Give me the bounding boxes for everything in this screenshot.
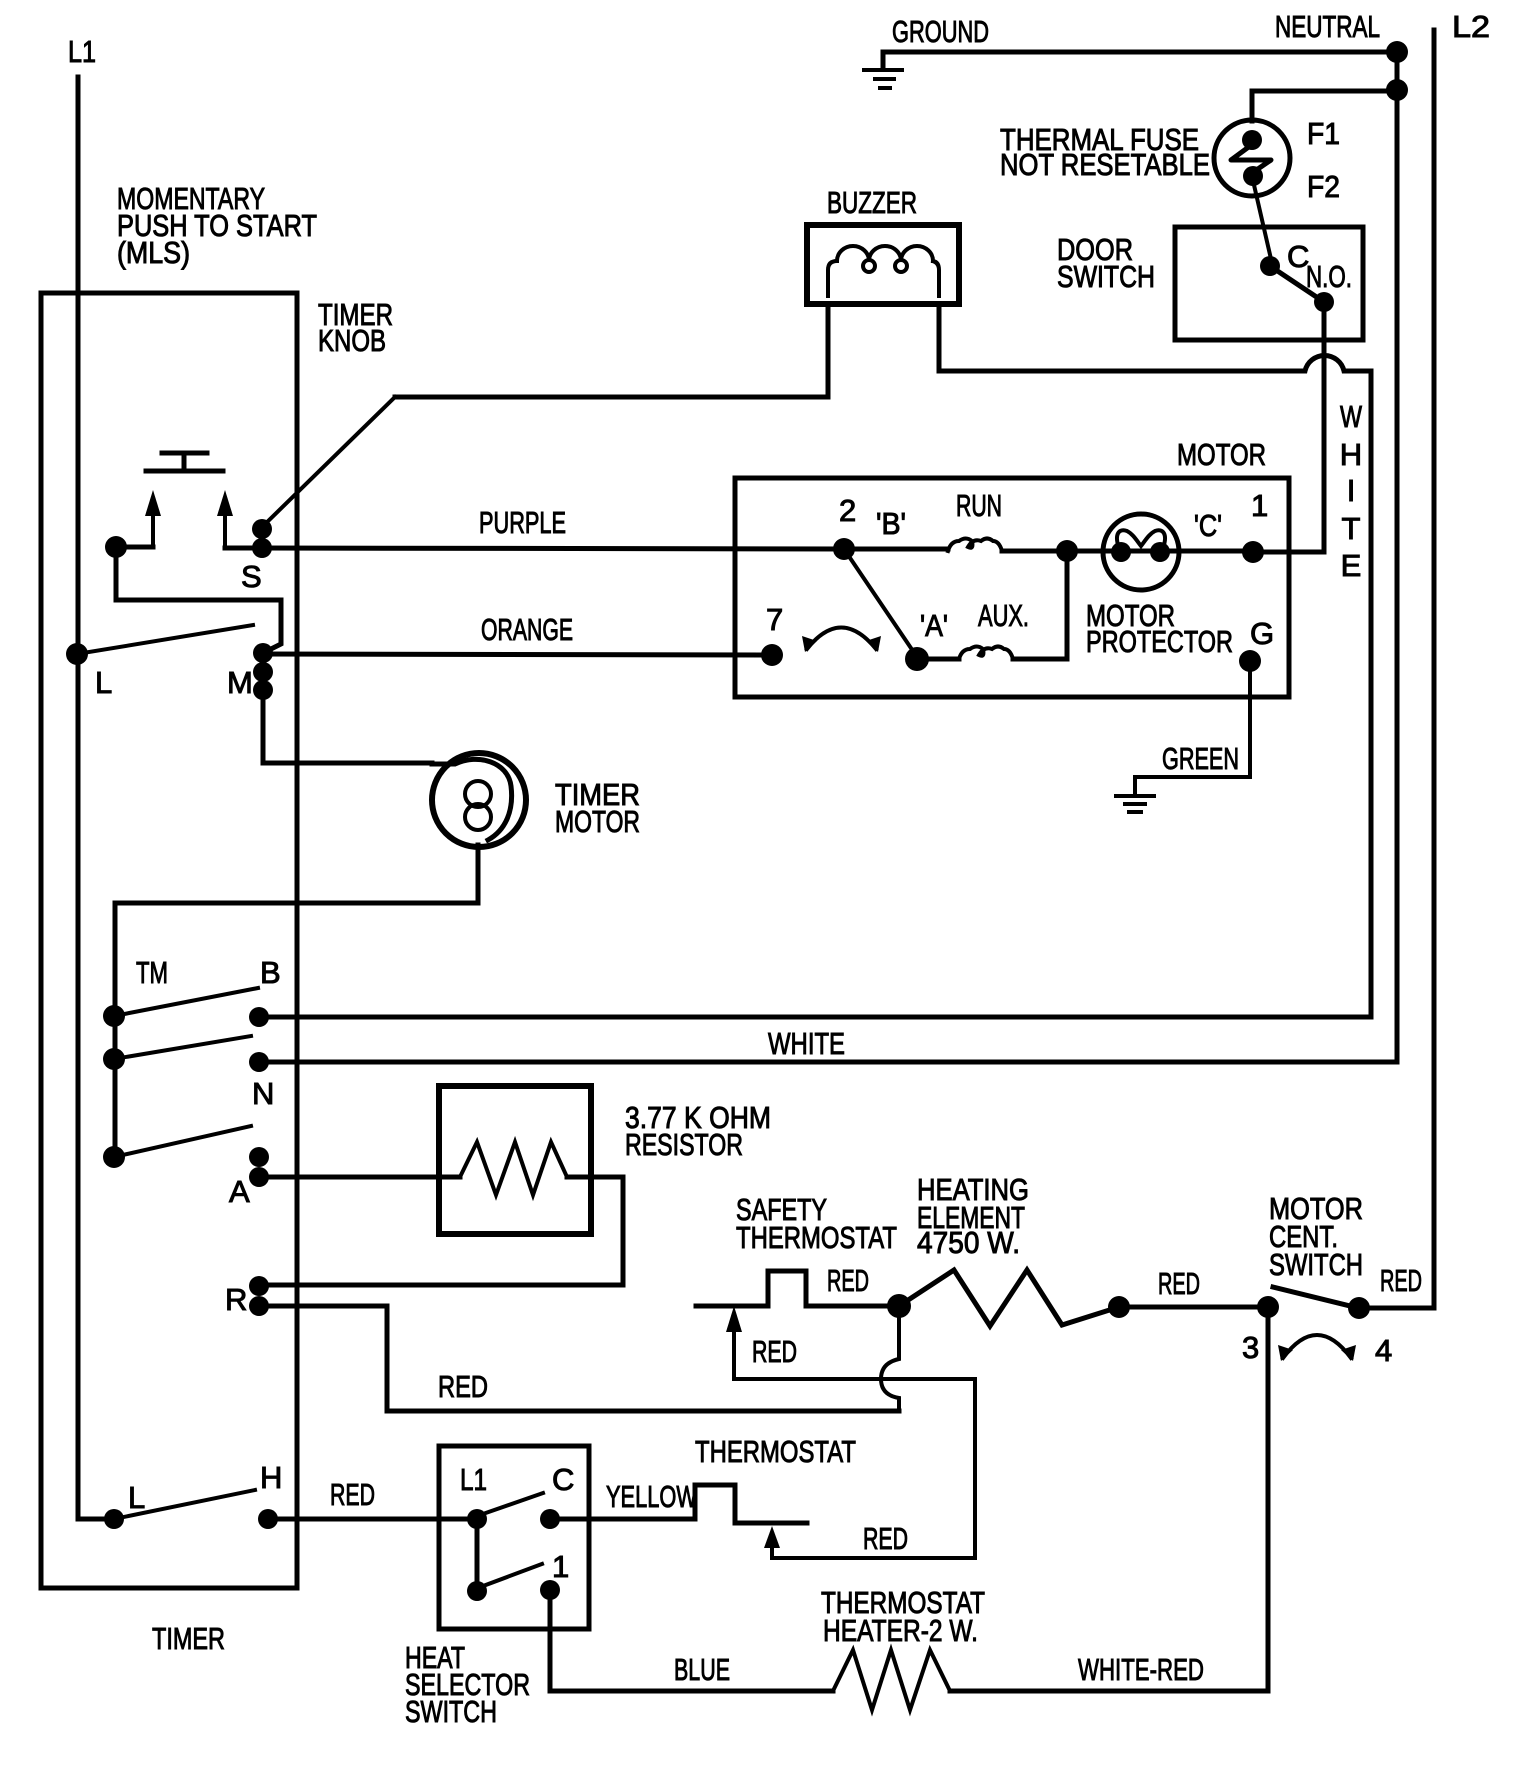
wire L2 line xyxy=(1432,30,1437,1308)
fuse F1-F2 circle xyxy=(1214,120,1290,196)
motor terminal G dot xyxy=(1239,650,1261,672)
svg-text:N.O.: N.O. xyxy=(1306,259,1352,294)
svg-text:WHITE-RED: WHITE-RED xyxy=(1078,1652,1204,1687)
svg-text:KNOB: KNOB xyxy=(318,323,386,358)
svg-text:WHITE: WHITE xyxy=(768,1026,845,1061)
svg-text:AUX.: AUX. xyxy=(978,598,1029,633)
svg-text:GREEN: GREEN xyxy=(1162,741,1239,776)
wire ground lead xyxy=(883,52,1397,69)
node heating element right junction xyxy=(1108,1296,1130,1318)
svg-text:SWITCH: SWITCH xyxy=(1269,1247,1363,1282)
svg-text:L2: L2 xyxy=(1452,9,1490,44)
svg-text:H: H xyxy=(260,1460,282,1495)
svg-text:ORANGE: ORANGE xyxy=(481,612,573,647)
motor RUN winding coil xyxy=(948,539,1002,552)
motor blade 2-A xyxy=(844,549,917,657)
timer box xyxy=(41,293,297,1588)
svg-text:RESISTOR: RESISTOR xyxy=(625,1127,743,1162)
svg-text:4750 W.: 4750 W. xyxy=(917,1225,1020,1260)
motor AUX winding coil xyxy=(959,647,1013,660)
timer blade L-H xyxy=(114,1490,255,1519)
svg-text:R: R xyxy=(225,1282,247,1317)
svg-text:N: N xyxy=(252,1076,274,1111)
motor terminal 7 dot xyxy=(761,644,783,666)
wire L1 line xyxy=(76,77,81,1519)
timer motor coil xyxy=(432,759,512,840)
motor cent switch terminal 4 dot xyxy=(1348,1297,1370,1319)
svg-text:4: 4 xyxy=(1375,1333,1392,1368)
wire junction down with hop over bypass xyxy=(881,1306,899,1411)
svg-text:NEUTRAL: NEUTRAL xyxy=(1275,9,1380,44)
thermostat heater 2W zigzag xyxy=(833,1650,950,1710)
svg-text:W: W xyxy=(1340,399,1363,434)
svg-text:RED: RED xyxy=(752,1334,797,1369)
svg-text:L1: L1 xyxy=(460,1462,487,1497)
wire M to timer motor xyxy=(263,690,432,763)
wire 3 down to WHITE-RED xyxy=(950,1307,1268,1691)
wire L1 corner to L contact xyxy=(78,1517,114,1522)
wire buzzer left lead xyxy=(826,304,831,396)
svg-text:3: 3 xyxy=(1242,1330,1259,1365)
timer contact H dot xyxy=(258,1509,278,1529)
heat selector L1 dot xyxy=(467,1509,487,1529)
svg-text:RED: RED xyxy=(1380,1263,1422,1298)
motor cent switch blade xyxy=(1273,1287,1350,1306)
motor arc arrow 7-A xyxy=(807,628,876,650)
resistor 3.77K zigzag xyxy=(460,1142,567,1195)
svg-text:F1: F1 xyxy=(1307,116,1340,151)
svg-text:A: A xyxy=(229,1174,250,1209)
wire timer motor to TM xyxy=(115,845,478,1157)
svg-text:NOT RESETABLE: NOT RESETABLE xyxy=(1000,147,1210,182)
timer contact S dots xyxy=(252,519,272,539)
wire RUN to junction xyxy=(844,549,1067,551)
node fuse-neutral junction xyxy=(1386,79,1408,101)
motor cent switch arc arrow xyxy=(1283,1335,1351,1358)
svg-text:I: I xyxy=(1347,473,1356,508)
motor terminal 1 dot xyxy=(1242,541,1264,563)
svg-text:HEATER-2 W.: HEATER-2 W. xyxy=(823,1613,978,1648)
wire buzzer to white vertical (with hop over N.O. wire) xyxy=(939,355,1371,1017)
svg-text:RED: RED xyxy=(330,1477,375,1512)
timer contact M dots xyxy=(253,643,273,663)
svg-text:L: L xyxy=(128,1480,145,1515)
heat selector blade L1-C xyxy=(480,1493,543,1515)
wire resistor out loop to R xyxy=(259,1177,623,1285)
wire A to resistor xyxy=(259,1175,460,1180)
svg-text:RED: RED xyxy=(827,1263,869,1298)
svg-text:C: C xyxy=(552,1462,574,1497)
wire GREEN G to ground xyxy=(1135,661,1250,794)
buzzer box xyxy=(807,225,959,304)
wire ORANGE M to motor 7 xyxy=(263,654,772,655)
svg-text:'C': 'C' xyxy=(1194,508,1222,543)
node motor internal junction dot xyxy=(1056,540,1078,562)
svg-text:TIMER: TIMER xyxy=(152,1621,225,1656)
heat selector 1 dot xyxy=(540,1580,560,1600)
wire red bypass to thermostat xyxy=(734,1379,975,1558)
timer contact N dot xyxy=(249,1052,269,1072)
svg-text:MOTOR: MOTOR xyxy=(1177,437,1266,472)
timer motor circle xyxy=(432,753,526,847)
timer blade TM-B xyxy=(114,988,258,1016)
door switch contact N.O. dot xyxy=(1314,292,1334,312)
svg-text:GROUND: GROUND xyxy=(892,14,989,49)
wire red stub and safety thermostat bump xyxy=(696,1271,899,1306)
svg-text:L1: L1 xyxy=(68,34,96,69)
wire RED 4 to L2 xyxy=(1359,1306,1434,1311)
timer contact TM dots xyxy=(103,1005,125,1027)
wire arrows base xyxy=(116,547,262,548)
fuse element zigzag xyxy=(1231,146,1271,173)
node L junction dot xyxy=(66,643,88,665)
door switch box xyxy=(1175,227,1363,340)
motor terminal 2 dot xyxy=(833,538,855,560)
timer contact B dot xyxy=(249,1007,269,1027)
door switch contact C dot xyxy=(1260,256,1280,276)
svg-text:B: B xyxy=(260,955,281,990)
wire BLUE to heat selector 1 xyxy=(550,1590,833,1691)
ground symbol (motor) xyxy=(1116,796,1154,812)
wire protector to terminal 1 xyxy=(1067,549,1253,554)
svg-text:YELLOW: YELLOW xyxy=(606,1479,698,1514)
wire junction to M contact xyxy=(116,547,281,653)
svg-text:THERMOSTAT: THERMOSTAT xyxy=(695,1434,856,1469)
svg-text:G: G xyxy=(1250,616,1274,651)
svg-text:RED: RED xyxy=(438,1369,488,1404)
svg-text:S: S xyxy=(241,559,262,594)
wire buzzer right lead xyxy=(937,304,942,371)
resistor box xyxy=(439,1086,591,1234)
svg-text:PROTECTOR: PROTECTOR xyxy=(1086,624,1233,659)
svg-text:BLUE: BLUE xyxy=(674,1652,730,1687)
heat selector switch box xyxy=(439,1446,589,1629)
wire fuse F2 to door switch C xyxy=(1254,185,1271,259)
svg-text:SWITCH: SWITCH xyxy=(405,1694,497,1729)
svg-text:L: L xyxy=(95,665,112,700)
heat selector blade lower-1 xyxy=(483,1564,542,1586)
svg-text:F2: F2 xyxy=(1307,169,1340,204)
timer contact R dots xyxy=(249,1276,269,1296)
ground symbol (top) xyxy=(864,70,902,88)
wire timer knob horizontal to buzzer xyxy=(395,395,828,400)
motor protector contacts xyxy=(1111,542,1131,562)
motor terminal A dot xyxy=(905,647,929,671)
svg-text:(MLS): (MLS) xyxy=(117,235,190,270)
node NEUTRAL junction xyxy=(1386,41,1408,63)
motor protector bimetal xyxy=(1117,530,1165,548)
svg-text:H: H xyxy=(1340,437,1362,472)
fuse terminal F1 dot xyxy=(1242,130,1262,150)
node heating element left junction xyxy=(887,1294,911,1318)
svg-text:1: 1 xyxy=(1251,488,1268,523)
push-to-start button symbol xyxy=(146,453,223,471)
heating element 4750W zigzag xyxy=(899,1270,1119,1326)
svg-text:RED: RED xyxy=(1158,1266,1200,1301)
svg-text:RUN: RUN xyxy=(956,488,1002,523)
wire B white to buzzer vertical xyxy=(259,1015,1371,1020)
wire timer knob diagonal from S xyxy=(262,397,395,527)
timer blade mid-N xyxy=(114,1036,251,1059)
svg-text:TM: TM xyxy=(136,955,168,990)
svg-text:7: 7 xyxy=(766,602,783,637)
wire PURPLE S to motor 2 xyxy=(262,548,844,549)
svg-text:PURPLE: PURPLE xyxy=(479,505,566,540)
safety thermostat arrow xyxy=(732,1330,736,1379)
svg-text:2: 2 xyxy=(839,493,856,528)
svg-text:RED: RED xyxy=(863,1521,908,1556)
wire R red to safety thermostat area xyxy=(259,1306,899,1411)
thermostat actuator arrow xyxy=(764,1526,780,1548)
svg-text:MOTOR: MOTOR xyxy=(555,804,640,839)
buzzer coil xyxy=(828,246,939,296)
wire N WHITE to neutral xyxy=(259,1060,1397,1065)
push button arrow right xyxy=(223,516,227,548)
wire A to AUX to junction xyxy=(917,551,1067,659)
timer blade low-A xyxy=(114,1126,251,1157)
svg-text:M: M xyxy=(227,665,253,700)
wire neutral vertical xyxy=(1395,52,1400,1062)
wire RED H to heat selector L1 xyxy=(268,1517,477,1522)
motor cent switch terminal 3 dot xyxy=(1257,1296,1279,1318)
fuse terminal F2 dot xyxy=(1243,166,1263,186)
timer contact A dots xyxy=(249,1147,269,1167)
wire N.O. to motor terminal 1 (white) xyxy=(1253,302,1324,552)
svg-text:E: E xyxy=(1341,548,1362,583)
svg-text:BUZZER: BUZZER xyxy=(827,185,917,220)
wire YELLOW C to thermostat xyxy=(550,1485,807,1523)
svg-text:THERMOSTAT: THERMOSTAT xyxy=(736,1220,897,1255)
motor protector circle xyxy=(1103,514,1179,590)
svg-text:1: 1 xyxy=(552,1549,569,1584)
timer blade L-M xyxy=(77,625,253,654)
heat selector strap L1 down xyxy=(475,1519,480,1591)
wire RED to motor cent switch 3 xyxy=(1119,1305,1268,1310)
svg-text:T: T xyxy=(1342,511,1361,546)
heat selector C dot xyxy=(540,1509,560,1529)
svg-text:SWITCH: SWITCH xyxy=(1057,259,1155,294)
svg-text:'B': 'B' xyxy=(876,506,906,541)
motor box xyxy=(735,478,1289,697)
svg-text:'A': 'A' xyxy=(920,608,948,643)
node push-button left junction dot xyxy=(105,536,127,558)
wire fuse to neutral xyxy=(1252,91,1397,121)
door switch blade xyxy=(1270,266,1324,302)
push button arrow left xyxy=(151,516,155,547)
timer contact L(bottom) dot xyxy=(104,1509,124,1529)
heat selector lower dot xyxy=(467,1581,487,1601)
